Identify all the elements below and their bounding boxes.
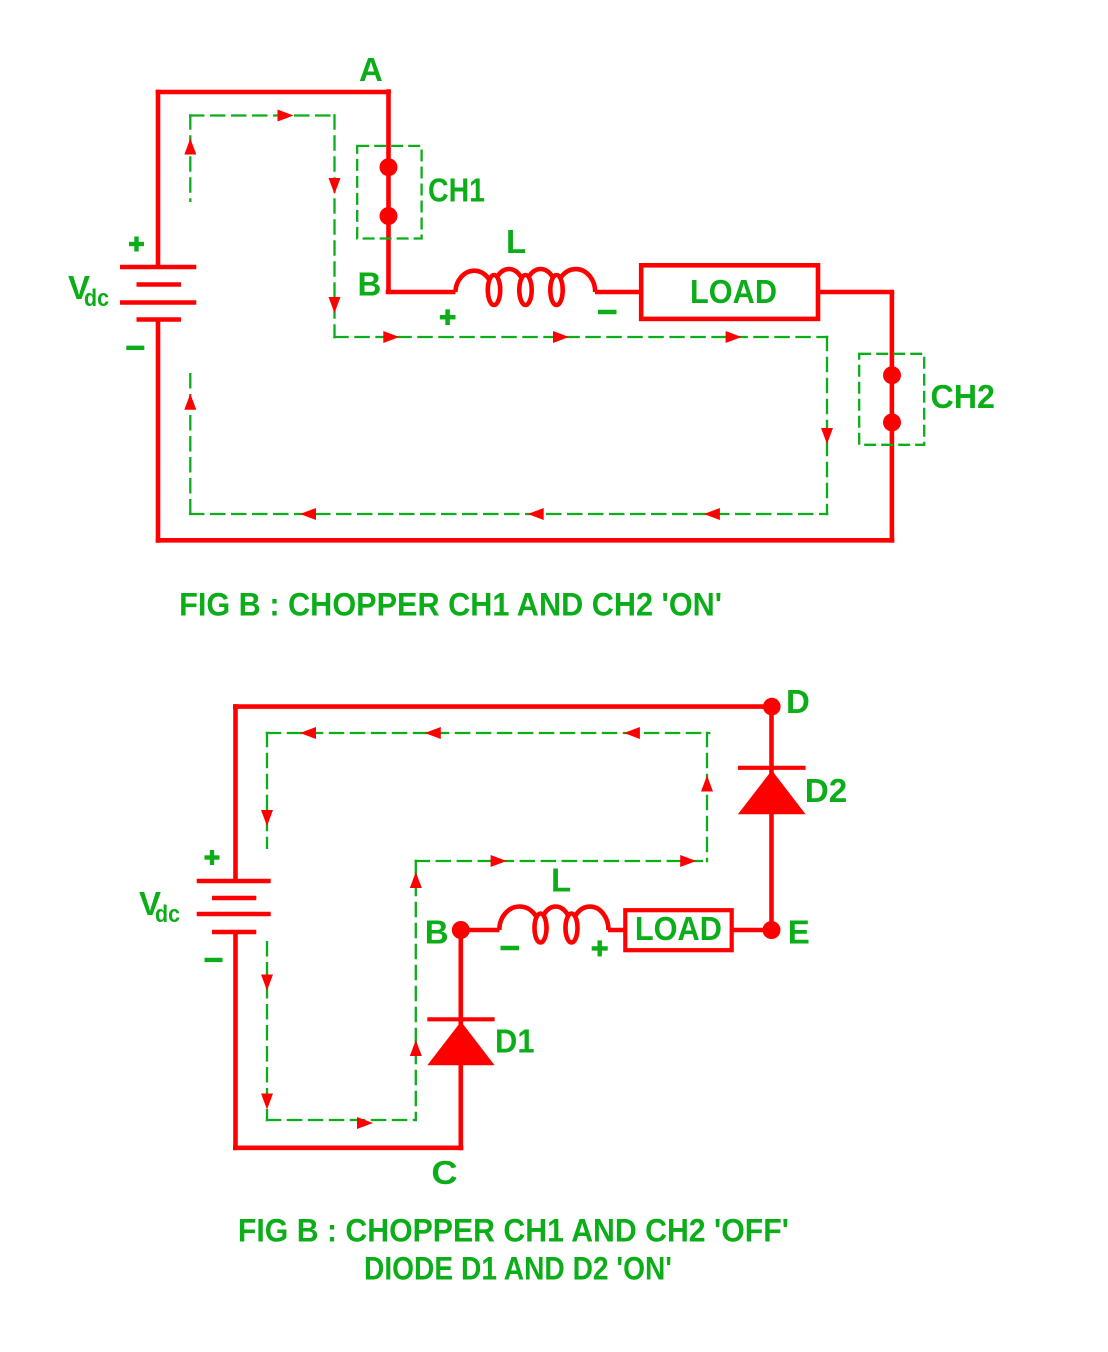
wire CH1 vertical bbox=[386, 89, 391, 292]
wire top horizontal A bbox=[156, 90, 391, 95]
wire D1 vertical bbox=[458, 930, 463, 1150]
dashed right vertical bbox=[826, 336, 828, 515]
current arrows bottom figure bbox=[261, 727, 713, 1129]
svg-text:A: A bbox=[359, 51, 383, 88]
arrow left on top dashed b2 bbox=[425, 727, 441, 739]
arrow right on middle dashed b1 bbox=[491, 855, 507, 867]
dashed left vertical bottom-figure lower bbox=[266, 941, 268, 1121]
wire left vertical battery bottom bottom-figure bbox=[233, 932, 238, 1150]
svg-text:FIG B : CHOPPER CH1 AND CH2 'O: FIG B : CHOPPER CH1 AND CH2 'OFF' bbox=[238, 1213, 789, 1249]
LOAD box top figure bbox=[641, 265, 818, 319]
svg-text:LOAD: LOAD bbox=[635, 910, 722, 947]
arrow left on top dashed b1 bbox=[300, 727, 316, 739]
dashed left vertical lower bbox=[189, 373, 191, 515]
arrow down on left dashed b3 bbox=[261, 1094, 273, 1110]
battery plus sign bottom bbox=[205, 850, 220, 865]
wire LOAD to right corner bbox=[818, 290, 894, 295]
svg-text:DIODE D1 AND D2 'ON': DIODE D1 AND D2 'ON' bbox=[364, 1251, 672, 1287]
arrow up on inner dashed b2 bbox=[410, 1040, 422, 1056]
dashed inner vertical bbox=[333, 114, 335, 338]
dashed top horizontal bottom-figure bbox=[266, 732, 711, 734]
arrow down on right dashed bbox=[821, 428, 833, 444]
inductor L top figure bbox=[455, 269, 595, 292]
wire left vertical battery top bbox=[156, 90, 161, 267]
svg-text:D1: D1 bbox=[495, 1023, 535, 1060]
arrow left on bottom dashed 2 bbox=[528, 508, 544, 520]
dashed bottom horizontal bbox=[189, 513, 828, 515]
wire inductor to LOAD bottom bbox=[608, 928, 626, 933]
arrow down on inner dashed 1 bbox=[329, 178, 341, 194]
chopper CH1 contact dot upper bbox=[380, 158, 398, 176]
svg-text:CH1: CH1 bbox=[428, 172, 485, 209]
battery Vdc bottom figure bbox=[197, 881, 271, 932]
dashed left vertical upper bbox=[189, 114, 191, 202]
chopper CH1 dashed box bbox=[357, 146, 421, 239]
node D dot bbox=[763, 698, 781, 716]
node B dot bbox=[452, 921, 470, 939]
dashed left vertical bottom-figure upper bbox=[266, 732, 268, 849]
arrow up on inner dashed b1 bbox=[410, 872, 422, 888]
wire LOAD to E bbox=[732, 928, 774, 933]
arrow right on middle dashed 3 bbox=[726, 331, 742, 343]
inductor plus sign bottom bbox=[592, 940, 608, 956]
inductor L bottom figure bbox=[499, 906, 608, 930]
battery plus sign bbox=[129, 237, 144, 252]
battery minus sign bbox=[126, 346, 144, 350]
battery minus sign bottom bbox=[205, 958, 223, 962]
chopper CH2 contact dot lower bbox=[883, 413, 901, 431]
dashed right vertical bottom-figure bbox=[706, 732, 708, 863]
dashed middle horizontal bottom-figure bbox=[415, 860, 709, 862]
arrow right on middle dashed b2 bbox=[680, 855, 696, 867]
battery Vdc top figure bbox=[120, 267, 196, 320]
diode D1 bbox=[427, 1019, 494, 1065]
svg-text:LOAD: LOAD bbox=[690, 273, 777, 310]
arrow right on top dashed bbox=[278, 110, 294, 122]
svg-text:CH2: CH2 bbox=[931, 378, 996, 415]
arrow up on left dashed 2 bbox=[184, 394, 196, 410]
arrow up on right dashed b bbox=[701, 776, 713, 792]
arrow right on middle dashed 2 bbox=[553, 331, 569, 343]
dashed bottom horizontal bottom-figure bbox=[266, 1119, 417, 1121]
arrow left on bottom dashed 3 bbox=[300, 508, 316, 520]
svg-text:Vdc: Vdc bbox=[139, 885, 180, 928]
chopper CH2 dashed box bbox=[859, 354, 924, 445]
current path dashed loop bottom figure bbox=[266, 732, 711, 1122]
node E dot bbox=[763, 921, 781, 939]
wire bottom horizontal to C bbox=[233, 1146, 463, 1151]
svg-text:E: E bbox=[788, 914, 810, 951]
chopper CH1 contact dot lower bbox=[380, 207, 398, 225]
dashed inner vertical bottom-figure bbox=[415, 860, 417, 1122]
arrow down on left dashed b1 bbox=[261, 810, 273, 826]
svg-text:FIG B : CHOPPER CH1 AND CH2 'O: FIG B : CHOPPER CH1 AND CH2 'ON' bbox=[179, 587, 722, 623]
dashed middle horizontal bbox=[333, 336, 828, 338]
wire left vertical battery top bottom-figure bbox=[233, 704, 238, 881]
dashed top horizontal bbox=[189, 114, 336, 116]
current path dashed loop top figure bbox=[189, 114, 828, 515]
svg-text:L: L bbox=[506, 223, 526, 260]
svg-text:D: D bbox=[786, 683, 810, 720]
svg-text:Vdc: Vdc bbox=[68, 269, 109, 312]
arrow up on left dashed 1 bbox=[184, 139, 196, 155]
svg-text:C: C bbox=[431, 1155, 457, 1191]
svg-text:B: B bbox=[358, 266, 382, 303]
wire B to inductor bottom bbox=[458, 928, 500, 933]
wire right vertical D2 bbox=[769, 704, 774, 930]
wire top horizontal to D bbox=[233, 704, 774, 709]
inductor plus sign bbox=[440, 309, 456, 325]
arrow right on middle dashed 1 bbox=[383, 331, 399, 343]
arrow right on bottom dashed b bbox=[357, 1117, 373, 1129]
svg-text:B: B bbox=[425, 914, 449, 951]
wire left vertical battery bottom bbox=[156, 320, 161, 543]
wire B to inductor bbox=[386, 290, 456, 295]
wire inductor to LOAD bbox=[595, 290, 643, 295]
arrow down on left dashed b2 bbox=[261, 975, 273, 991]
current arrows top figure bbox=[184, 110, 833, 521]
wire bottom horizontal bbox=[156, 538, 895, 543]
LOAD box bottom figure bbox=[625, 910, 731, 950]
arrow down on inner dashed 2 bbox=[329, 297, 341, 313]
arrow left on bottom dashed 1 bbox=[704, 508, 720, 520]
inductor minus sign bbox=[598, 310, 617, 315]
svg-text:L: L bbox=[551, 862, 571, 899]
wire right vertical CH2 bbox=[890, 292, 895, 543]
chopper CH2 contact dot upper bbox=[883, 366, 901, 384]
diode D2 bbox=[738, 768, 806, 815]
inductor minus sign bottom bbox=[501, 946, 520, 950]
arrow left on top dashed b3 bbox=[624, 727, 640, 739]
svg-text:D2: D2 bbox=[805, 772, 848, 809]
